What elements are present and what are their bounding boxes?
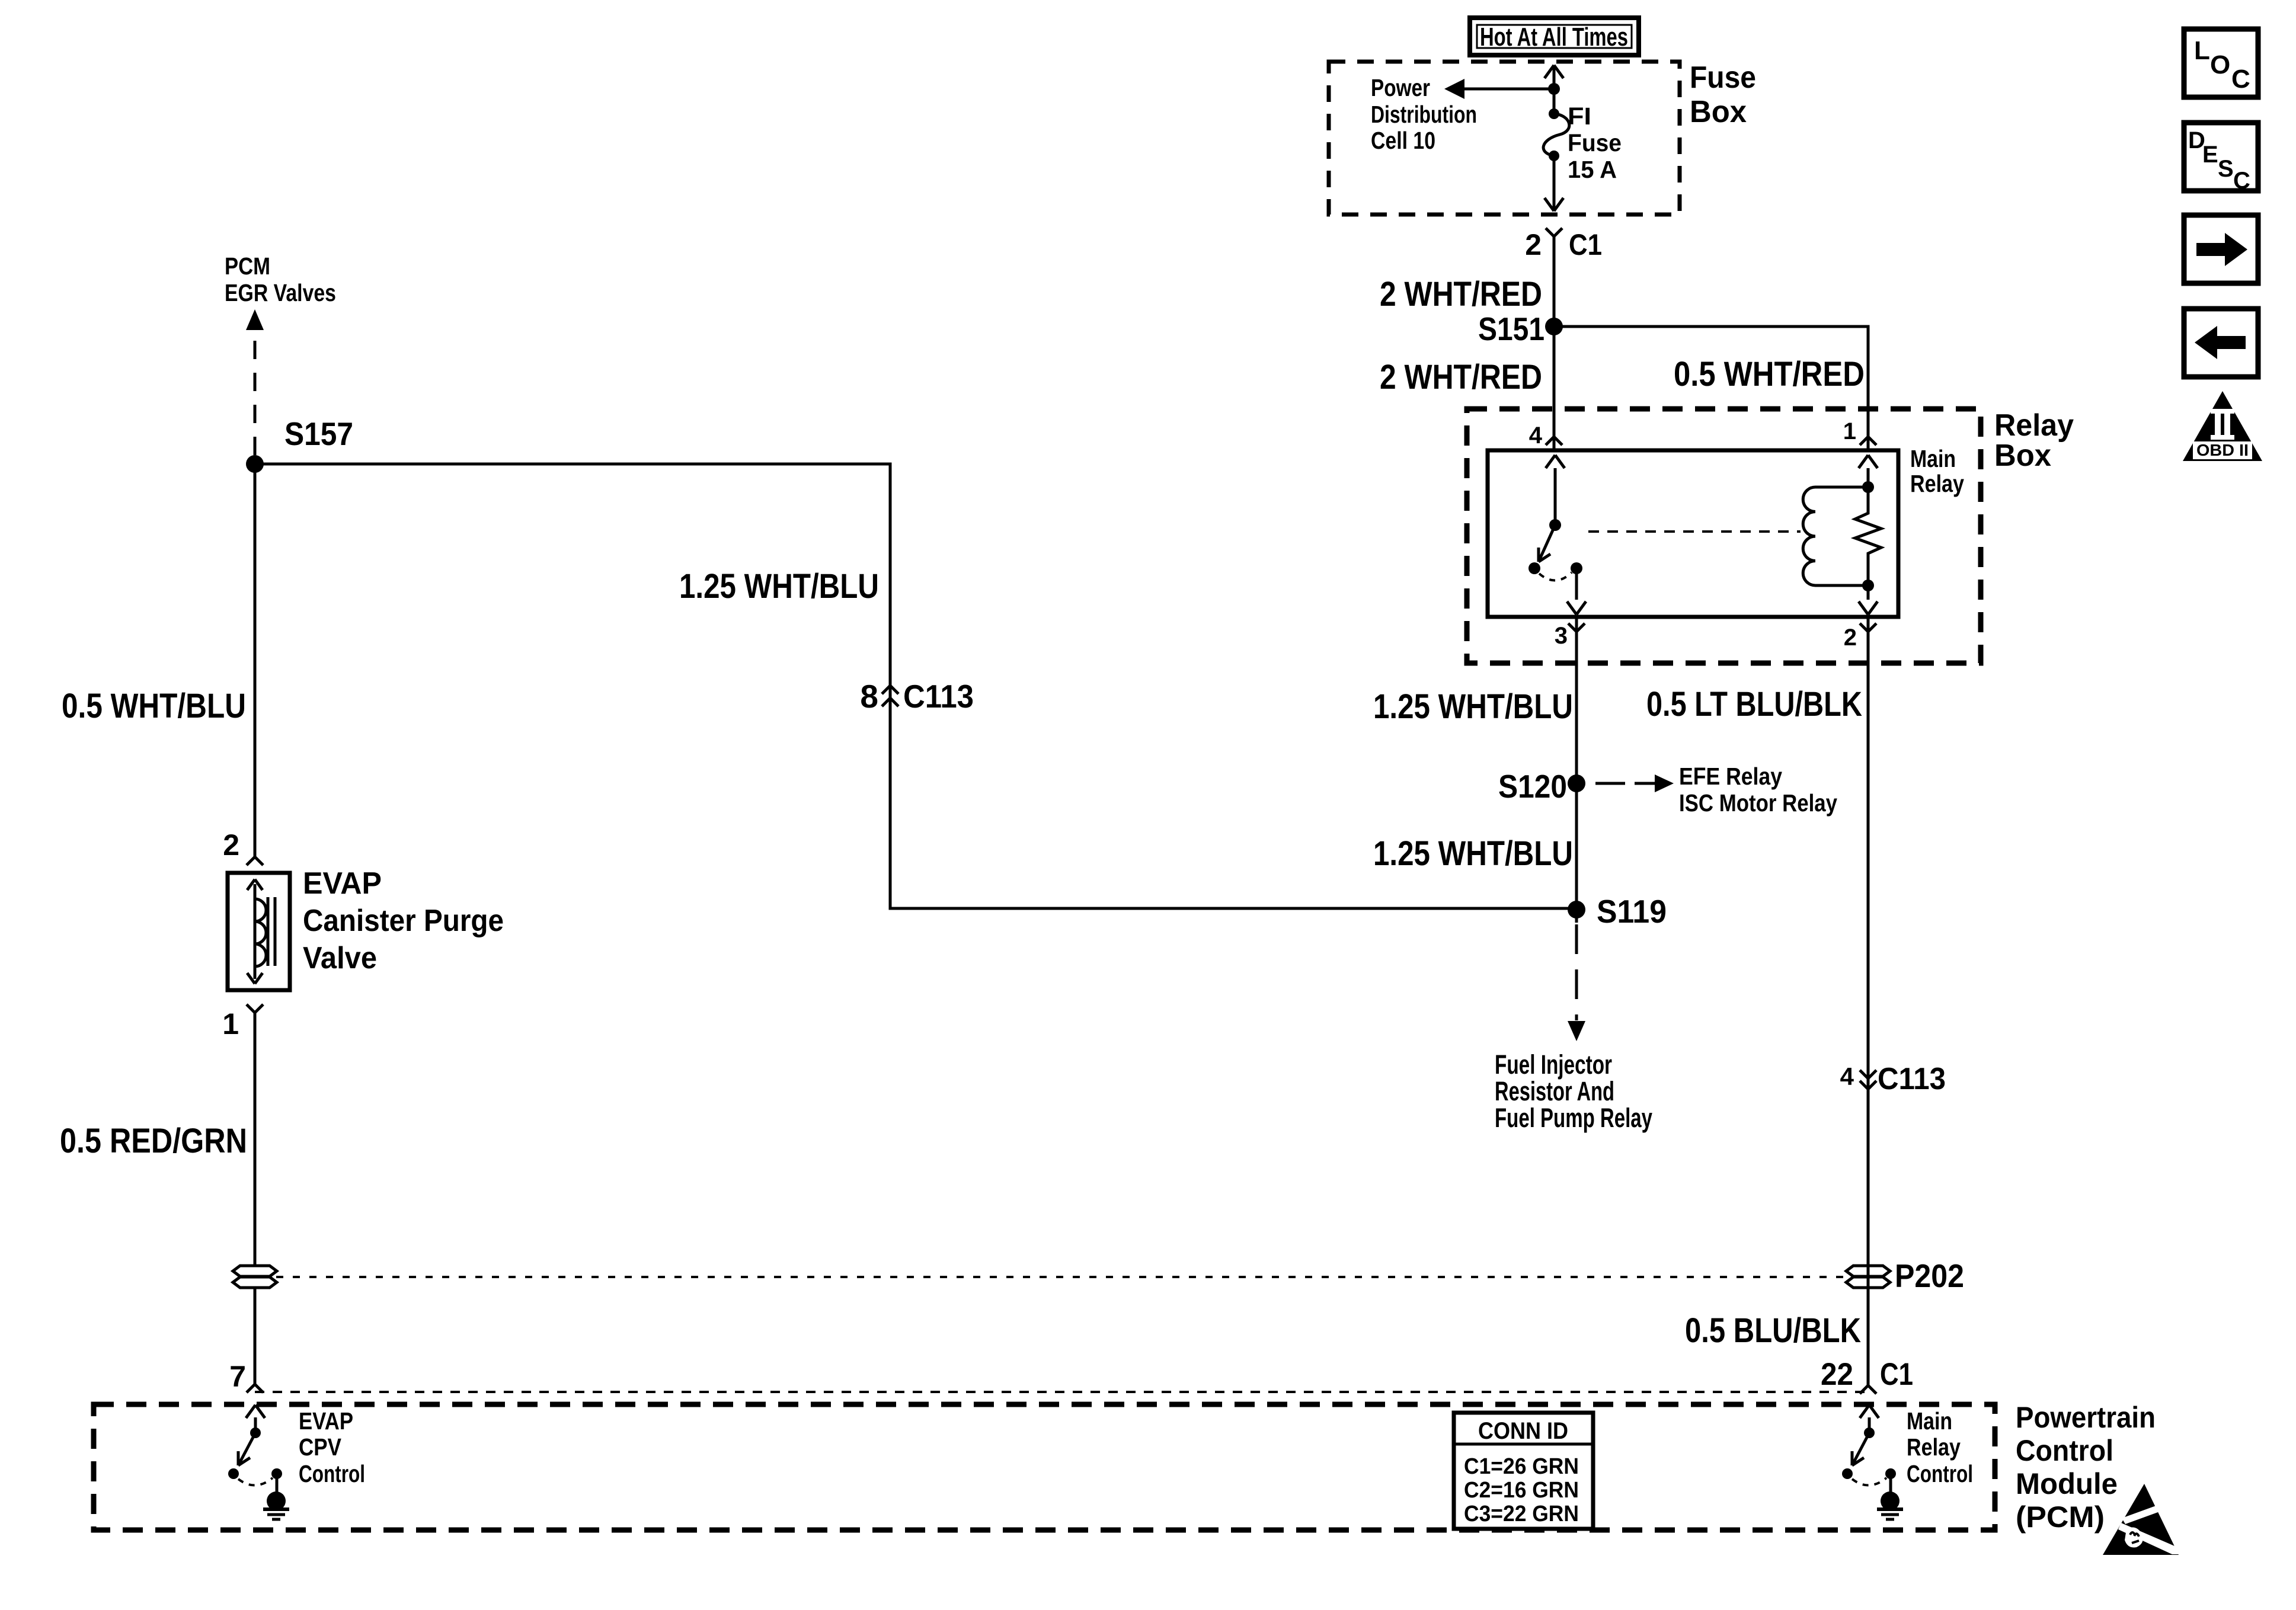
svg-text:8: 8 [860,678,878,715]
splice S119 [1568,893,1667,930]
svg-text:S120: S120 [1498,768,1567,805]
svg-text:CPV: CPV [299,1433,342,1461]
ground at EVAP CPV switch [263,1474,289,1519]
label 1.25 WHT/BLU (below S120) [1373,834,1573,873]
wire from Hot box into fuse box with up arrow [1544,65,1563,89]
wire C1 to S151 [1553,236,1556,327]
svg-text:2: 2 [1844,625,1857,651]
relay coil to pin 2 with down arrow [1859,585,1878,614]
EVAP CPV control switch: arrow to pin 7 [246,1405,265,1438]
label 0.5 RED/GRN [60,1122,247,1160]
icon LOC button [2184,29,2258,97]
svg-text:Main: Main [1910,445,1956,472]
svg-text:2: 2 [1525,228,1542,261]
dashed arrow S119 to fuel injector resistor [1568,924,1585,1041]
svg-text:Resistor And: Resistor And [1495,1076,1614,1106]
label Power Distribution Cell 10 [1371,74,1477,154]
svg-text:FI: FI [1568,103,1591,130]
svg-text:Hot At All Times: Hot At All Times [1480,23,1628,52]
main relay control switch: arrow to pin 22 [1860,1405,1879,1438]
fuse FI 15 A [1543,108,1569,161]
svg-text:L: L [2194,36,2210,65]
svg-text:0.5 BLU/BLK: 0.5 BLU/BLK [1685,1311,1861,1350]
svg-text:3: 3 [1555,623,1568,649]
label 1.25 WHT/BLU (top branch) [679,567,879,606]
PCM box (dashed) [94,1404,1995,1530]
wire S157 down to EVAP valve [254,464,257,857]
label FI Fuse 15 A [1568,103,1622,183]
svg-text:EVAP: EVAP [299,1407,353,1435]
svg-text:S: S [2218,156,2234,182]
wire S157 right to 8 C113 branch [255,464,1576,908]
svg-text:7: 7 [229,1360,246,1393]
wire relay pin 3 down to S120 and S119 [1575,632,1578,923]
svg-text:C: C [2233,168,2250,194]
svg-text:0.5 LT BLU/BLK: 0.5 LT BLU/BLK [1646,685,1862,724]
svg-text:Box: Box [1690,95,1747,129]
svg-text:0.5 WHT/BLU: 0.5 WHT/BLU [62,687,246,725]
svg-text:EFE Relay: EFE Relay [1679,763,1782,790]
svg-text:Valve: Valve [303,941,377,975]
node: junction dot at fuse feed [1548,83,1560,95]
EVAP CPV switch contacts [228,1468,282,1486]
power source box "Hot At All Times" [1470,18,1639,55]
svg-text:S157: S157 [284,415,353,452]
svg-text:Power: Power [1371,74,1430,101]
label 2 WHT/RED (lower) [1380,358,1542,396]
svg-text:1.25 WHT/BLU: 1.25 WHT/BLU [1373,687,1573,726]
svg-text:Control: Control [1907,1460,1973,1487]
label Fuse Box [1690,60,1756,129]
pin 3 chevron [1555,617,1585,649]
pin 7 chevron [229,1360,263,1393]
label EVAP CPV Control [299,1407,365,1487]
label Fuel Injector Resistor And Fuel Pump Relay [1495,1049,1652,1133]
relay switch contacts [1528,562,1582,581]
wire S151 down to relay box pin 4 [1553,327,1556,437]
svg-text:EGR Valves: EGR Valves [225,279,336,306]
svg-text:2 WHT/RED: 2 WHT/RED [1380,358,1542,396]
connector 4 C113 (double chevron) [1840,1062,1946,1096]
wire EVAP valve down to P202 [254,1013,257,1266]
svg-text:1.25 WHT/BLU: 1.25 WHT/BLU [679,567,879,606]
svg-text:EVAP: EVAP [303,866,382,901]
EVAP CPV switch blade [238,1433,255,1465]
label EFE Relay / ISC Motor Relay [1679,763,1837,817]
relay switch: arm arrow to pin 4 [1546,455,1565,531]
arrow to Power Distribution Cell 10 [1444,79,1554,99]
label PCM EGR Valves [225,252,336,306]
splice S120 [1498,768,1585,805]
relay coil branch: top arrow to pin 1 [1859,455,1878,493]
pin 2 chevron [1844,617,1876,651]
svg-text:Distribution: Distribution [1371,101,1477,128]
svg-text:PCM: PCM [225,252,270,280]
dashed line between P202 grommets [276,1276,1845,1278]
svg-text:4: 4 [1529,422,1543,449]
svg-text:Main: Main [1907,1407,1952,1435]
label 0.5 LT BLU/BLK [1646,685,1862,724]
relay mechanical link (dashed) [1588,530,1801,533]
svg-text:Module: Module [2016,1467,2118,1500]
svg-text:4: 4 [1840,1062,1854,1090]
icon back arrow button [2184,309,2258,377]
svg-text:E: E [2202,142,2218,168]
splice S151 [1478,311,1563,347]
svg-text:2: 2 [223,828,239,862]
icon OBD II triangle [2183,391,2262,461]
svg-text:C3=22 GRN: C3=22 GRN [1464,1502,1579,1526]
relay switch to pin 3 with down arrow [1567,568,1586,614]
EVAP valve solenoid symbol [247,879,275,984]
relay switch blade [1539,525,1555,562]
svg-text:0.5 RED/GRN: 0.5 RED/GRN [60,1122,247,1160]
label 0.5 BLU/BLK [1685,1311,1861,1350]
svg-text:C113: C113 [1878,1062,1946,1096]
main relay inner box [1488,450,1898,617]
svg-text:22: 22 [1821,1357,1853,1392]
grommet P202 right [1846,1257,1964,1294]
svg-text:C2=16 GRN: C2=16 GRN [1464,1478,1579,1503]
grommet P202 left [233,1266,277,1288]
svg-text:0.5 WHT/RED: 0.5 WHT/RED [1674,355,1865,393]
svg-text:ISC Motor Relay: ISC Motor Relay [1679,789,1837,817]
svg-text:P202: P202 [1895,1257,1964,1294]
svg-text:C113: C113 [903,678,974,715]
svg-text:O: O [2210,50,2230,79]
svg-text:OBD II: OBD II [2196,441,2249,459]
PCM connector face (thin dashed) [255,1391,1868,1393]
svg-text:Fuse: Fuse [1568,129,1622,156]
svg-text:Fuel Injector: Fuel Injector [1495,1049,1612,1080]
svg-text:(PCM): (PCM) [2016,1500,2105,1534]
label EVAP Canister Purge Valve [303,866,504,975]
svg-text:15 A: 15 A [1568,156,1617,183]
svg-text:2 WHT/RED: 2 WHT/RED [1380,275,1542,313]
icon DESC button [2184,123,2258,194]
label 0.5 WHT/BLU [62,687,246,725]
ground at main relay control switch [1877,1474,1903,1519]
label Main Relay [1910,445,1964,497]
label 0.5 WHT/RED [1674,355,1865,393]
svg-text:1: 1 [222,1007,239,1041]
svg-text:Relay: Relay [1907,1433,1961,1461]
dashed arrow S157 to PCM EGR Valves [246,309,264,455]
svg-text:1.25 WHT/BLU: 1.25 WHT/BLU [1373,834,1573,873]
main relay control switch blade [1852,1433,1869,1465]
wire P202 down to PCM pin 7 [254,1288,257,1384]
svg-text:Powertrain: Powertrain [2016,1401,2156,1434]
svg-text:CONN ID: CONN ID [1478,1418,1568,1444]
svg-text:C: C [2231,65,2250,94]
label Powertrain Control Module (PCM) [2016,1401,2156,1534]
pin 1 chevron [1843,418,1876,450]
pin 1 chevron at EVAP valve [222,1004,263,1041]
svg-text:Canister Purge: Canister Purge [303,904,504,938]
svg-text:Fuse: Fuse [1690,60,1756,95]
svg-text:Control: Control [299,1460,365,1487]
svg-text:C1=26 GRN: C1=26 GRN [1464,1454,1579,1479]
svg-text:Control: Control [2016,1434,2113,1467]
svg-text:Relay: Relay [1994,408,2074,443]
connector 8 C113 (double chevron) [860,678,974,715]
fuse box (dashed) [1329,62,1680,215]
label Relay Box [1994,408,2074,473]
connector 22 C1 (chevron) [1821,1357,1913,1394]
ESD warning triangle [2103,1484,2179,1555]
wire relay pin 2 down to PCM pin 22 [1867,632,1870,1385]
relay coil [1803,487,1868,585]
svg-text:S151: S151 [1478,311,1544,347]
EVAP Canister Purge Valve box [228,873,290,990]
svg-text:Cell 10: Cell 10 [1371,127,1435,154]
svg-text:1: 1 [1843,418,1856,444]
wire S151 right and down to relay pin 1 [1554,327,1868,437]
splice S157 [246,415,353,473]
icon forward arrow button [2184,215,2258,283]
main relay control switch contacts [1842,1468,1896,1486]
wire fuse to bottom of fuse box with down arrow [1544,156,1563,211]
svg-text:Box: Box [1994,438,2051,473]
svg-text:C1: C1 [1880,1357,1913,1392]
relay box (dashed) [1467,409,1981,663]
label Main Relay Control [1907,1407,1973,1487]
wire junction to fuse [1553,89,1556,114]
svg-text:C1: C1 [1569,228,1602,261]
svg-text:S119: S119 [1597,893,1667,930]
relay resistor [1855,487,1881,591]
svg-text:Fuel Pump Relay: Fuel Pump Relay [1495,1103,1652,1133]
label 1.25 WHT/BLU (above S120) [1373,687,1573,726]
connector 2 C1 (chevron) [1525,228,1602,261]
svg-text:Relay: Relay [1910,470,1964,497]
label 2 WHT/RED (upper) [1380,275,1542,313]
dashed arrow S120 to EFE Relay [1595,774,1674,792]
pin 2 chevron at EVAP valve [223,828,263,865]
pin 4 chevron [1529,422,1562,450]
CONN ID table [1454,1413,1593,1529]
